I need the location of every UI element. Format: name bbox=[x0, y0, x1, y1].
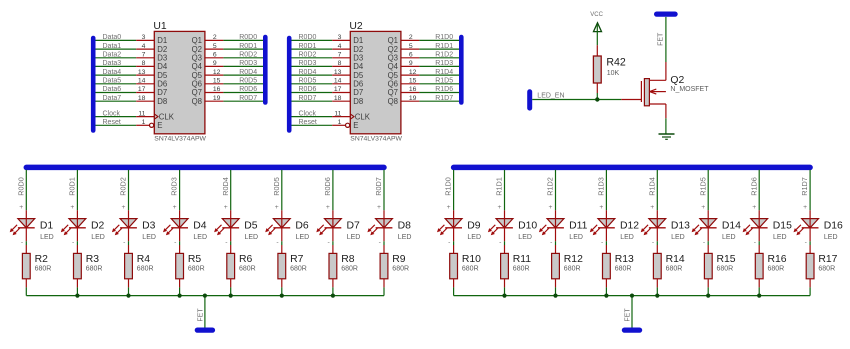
svg-text:3: 3 bbox=[338, 34, 342, 41]
svg-text:11: 11 bbox=[334, 110, 341, 117]
svg-text:D15: D15 bbox=[773, 221, 792, 232]
svg-text:Q5: Q5 bbox=[388, 71, 399, 80]
svg-text:LED: LED bbox=[398, 234, 412, 241]
svg-text:R1D1: R1D1 bbox=[435, 43, 453, 50]
svg-text:+: + bbox=[224, 204, 228, 211]
svg-text:680R: 680R bbox=[290, 266, 307, 273]
svg-text:1: 1 bbox=[338, 119, 342, 126]
svg-text:R0D4: R0D4 bbox=[299, 69, 317, 76]
svg-text:Clock: Clock bbox=[103, 110, 121, 117]
svg-text:R3: R3 bbox=[86, 254, 100, 265]
svg-text:D5: D5 bbox=[244, 221, 258, 232]
svg-text:Q4: Q4 bbox=[388, 62, 399, 71]
svg-text:Q8: Q8 bbox=[192, 97, 202, 106]
svg-text:-: - bbox=[174, 239, 176, 246]
svg-text:+: + bbox=[752, 204, 756, 211]
svg-text:R0D2: R0D2 bbox=[119, 177, 128, 196]
svg-text:U2: U2 bbox=[349, 21, 363, 32]
svg-text:15: 15 bbox=[213, 78, 221, 85]
svg-text:680R: 680R bbox=[513, 266, 530, 273]
svg-text:+: + bbox=[549, 204, 553, 211]
svg-text:R0D2: R0D2 bbox=[299, 52, 317, 59]
svg-text:D6: D6 bbox=[353, 80, 363, 89]
svg-text:D10: D10 bbox=[518, 221, 537, 232]
svg-text:R0D3: R0D3 bbox=[170, 177, 179, 196]
svg-text:-: - bbox=[379, 239, 381, 246]
svg-text:Data1: Data1 bbox=[103, 43, 122, 50]
svg-text:R7: R7 bbox=[290, 254, 304, 265]
svg-text:D1: D1 bbox=[157, 36, 167, 45]
svg-text:+: + bbox=[275, 204, 279, 211]
svg-text:R0D4: R0D4 bbox=[239, 69, 257, 76]
svg-text:9: 9 bbox=[409, 60, 413, 67]
svg-text:14: 14 bbox=[138, 78, 146, 85]
svg-text:5: 5 bbox=[409, 43, 413, 50]
svg-text:CLK: CLK bbox=[355, 112, 371, 121]
svg-text:680R: 680R bbox=[341, 266, 358, 273]
svg-text:E: E bbox=[157, 121, 162, 130]
svg-text:R9: R9 bbox=[392, 254, 406, 265]
svg-text:CLK: CLK bbox=[159, 112, 175, 121]
svg-text:-: - bbox=[123, 239, 125, 246]
svg-text:Q6: Q6 bbox=[388, 80, 398, 89]
svg-text:9: 9 bbox=[213, 60, 217, 67]
svg-text:R4: R4 bbox=[137, 254, 151, 265]
svg-text:680R: 680R bbox=[35, 266, 52, 273]
svg-text:N_MOSFET: N_MOSFET bbox=[670, 86, 709, 93]
svg-text:D8: D8 bbox=[353, 97, 363, 106]
svg-text:18: 18 bbox=[334, 95, 342, 102]
svg-text:R1D4: R1D4 bbox=[435, 69, 453, 76]
svg-text:D6: D6 bbox=[295, 221, 309, 232]
svg-text:R1D7: R1D7 bbox=[800, 177, 809, 196]
svg-text:+: + bbox=[326, 204, 330, 211]
svg-text:16: 16 bbox=[213, 86, 221, 93]
svg-text:Q8: Q8 bbox=[388, 97, 398, 106]
svg-text:680R: 680R bbox=[615, 266, 632, 273]
svg-text:R0D4: R0D4 bbox=[221, 177, 230, 196]
svg-text:R0D3: R0D3 bbox=[239, 60, 257, 67]
svg-text:D6: D6 bbox=[157, 80, 167, 89]
svg-text:R1D4: R1D4 bbox=[647, 177, 656, 196]
svg-text:R10: R10 bbox=[462, 254, 481, 265]
svg-text:R0D7: R0D7 bbox=[239, 95, 257, 102]
svg-text:D3: D3 bbox=[142, 221, 156, 232]
svg-text:12: 12 bbox=[213, 69, 221, 76]
svg-text:R0D5: R0D5 bbox=[299, 78, 317, 85]
svg-text:D16: D16 bbox=[824, 221, 843, 232]
svg-text:E: E bbox=[353, 121, 358, 130]
svg-text:LED: LED bbox=[773, 234, 787, 241]
svg-text:R11: R11 bbox=[513, 254, 532, 265]
svg-text:Q5: Q5 bbox=[192, 71, 203, 80]
svg-text:Q2: Q2 bbox=[388, 45, 398, 54]
svg-text:LED: LED bbox=[569, 234, 583, 241]
svg-text:Data7: Data7 bbox=[103, 95, 122, 102]
svg-text:18: 18 bbox=[138, 95, 146, 102]
svg-text:8: 8 bbox=[142, 60, 146, 67]
svg-text:R0D1: R0D1 bbox=[68, 177, 77, 196]
svg-text:680R: 680R bbox=[818, 266, 835, 273]
svg-text:680R: 680R bbox=[462, 266, 479, 273]
svg-text:R0D0: R0D0 bbox=[299, 34, 317, 41]
svg-text:13: 13 bbox=[334, 69, 342, 76]
svg-text:R0D5: R0D5 bbox=[272, 177, 281, 196]
svg-text:R12: R12 bbox=[564, 254, 583, 265]
svg-text:13: 13 bbox=[138, 69, 146, 76]
svg-text:R0D7: R0D7 bbox=[374, 177, 383, 196]
svg-text:D4: D4 bbox=[193, 221, 207, 232]
svg-text:-: - bbox=[327, 239, 329, 246]
svg-text:8: 8 bbox=[338, 60, 342, 67]
svg-text:D1: D1 bbox=[40, 221, 54, 232]
svg-text:680R: 680R bbox=[137, 266, 154, 273]
svg-text:LED: LED bbox=[193, 234, 207, 241]
svg-text:D5: D5 bbox=[353, 71, 364, 80]
svg-text:FET: FET bbox=[624, 308, 631, 322]
svg-text:+: + bbox=[122, 204, 126, 211]
svg-text:Q1: Q1 bbox=[192, 36, 202, 45]
svg-text:D7: D7 bbox=[353, 88, 363, 97]
svg-text:LED: LED bbox=[671, 234, 685, 241]
svg-text:Data3: Data3 bbox=[103, 60, 122, 67]
svg-text:-: - bbox=[448, 239, 450, 246]
svg-text:14: 14 bbox=[334, 78, 342, 85]
svg-text:LED: LED bbox=[142, 234, 156, 241]
svg-text:-: - bbox=[499, 239, 501, 246]
svg-text:D5: D5 bbox=[157, 71, 168, 80]
svg-text:R1D3: R1D3 bbox=[597, 177, 606, 196]
svg-text:-: - bbox=[805, 239, 807, 246]
svg-text:Q1: Q1 bbox=[388, 36, 398, 45]
svg-text:Reset: Reset bbox=[299, 119, 317, 126]
svg-text:D2: D2 bbox=[157, 45, 167, 54]
svg-text:R1D7: R1D7 bbox=[435, 95, 453, 102]
svg-text:-: - bbox=[703, 239, 705, 246]
svg-text:-: - bbox=[652, 239, 654, 246]
svg-text:R5: R5 bbox=[188, 254, 202, 265]
svg-text:-: - bbox=[21, 239, 23, 246]
svg-text:+: + bbox=[377, 204, 381, 211]
svg-text:17: 17 bbox=[334, 86, 342, 93]
svg-text:6: 6 bbox=[409, 52, 413, 59]
svg-text:+: + bbox=[19, 204, 23, 211]
svg-text:SN74LV374APW: SN74LV374APW bbox=[350, 136, 402, 143]
svg-text:680R: 680R bbox=[86, 266, 103, 273]
svg-text:-: - bbox=[601, 239, 603, 246]
svg-text:-: - bbox=[225, 239, 227, 246]
svg-text:LED: LED bbox=[467, 234, 481, 241]
svg-text:D7: D7 bbox=[157, 88, 167, 97]
svg-text:4: 4 bbox=[142, 43, 146, 50]
svg-text:LED: LED bbox=[518, 234, 532, 241]
svg-text:3: 3 bbox=[142, 34, 146, 41]
svg-text:R1D1: R1D1 bbox=[495, 177, 504, 196]
svg-text:-: - bbox=[754, 239, 756, 246]
svg-text:10K: 10K bbox=[607, 70, 620, 77]
svg-text:+: + bbox=[803, 204, 807, 211]
svg-text:R13: R13 bbox=[615, 254, 634, 265]
svg-text:D4: D4 bbox=[157, 62, 168, 71]
svg-text:R1D6: R1D6 bbox=[435, 86, 453, 93]
svg-text:19: 19 bbox=[213, 95, 221, 102]
svg-text:-: - bbox=[550, 239, 552, 246]
svg-text:Data0: Data0 bbox=[103, 34, 122, 41]
svg-text:2: 2 bbox=[213, 34, 217, 41]
svg-text:R0D1: R0D1 bbox=[239, 43, 257, 50]
svg-text:VCC: VCC bbox=[590, 12, 603, 18]
svg-text:U1: U1 bbox=[153, 21, 167, 32]
svg-text:D12: D12 bbox=[620, 221, 639, 232]
svg-text:R14: R14 bbox=[666, 254, 685, 265]
svg-text:+: + bbox=[650, 204, 654, 211]
svg-text:LED: LED bbox=[296, 234, 310, 241]
svg-text:7: 7 bbox=[338, 52, 342, 59]
svg-text:LED: LED bbox=[620, 234, 634, 241]
svg-text:R1D3: R1D3 bbox=[435, 60, 453, 67]
svg-text:R1D0: R1D0 bbox=[444, 177, 453, 196]
svg-text:D2: D2 bbox=[91, 221, 105, 232]
svg-text:D1: D1 bbox=[353, 36, 363, 45]
svg-text:Clock: Clock bbox=[299, 110, 317, 117]
svg-text:D11: D11 bbox=[569, 221, 588, 232]
svg-text:R17: R17 bbox=[818, 254, 837, 265]
svg-text:R0D2: R0D2 bbox=[239, 52, 257, 59]
svg-text:-: - bbox=[72, 239, 74, 246]
svg-text:-: - bbox=[276, 239, 278, 246]
svg-text:16: 16 bbox=[409, 86, 417, 93]
svg-text:R1D5: R1D5 bbox=[435, 78, 453, 85]
svg-text:Data2: Data2 bbox=[103, 52, 122, 59]
svg-text:+: + bbox=[173, 204, 177, 211]
svg-text:680R: 680R bbox=[717, 266, 734, 273]
svg-text:Reset: Reset bbox=[103, 119, 121, 126]
svg-text:R2: R2 bbox=[35, 254, 49, 265]
svg-text:+: + bbox=[498, 204, 502, 211]
svg-text:R1D2: R1D2 bbox=[435, 52, 453, 59]
svg-text:D13: D13 bbox=[671, 221, 690, 232]
svg-text:FET: FET bbox=[197, 308, 204, 322]
svg-text:LED_EN: LED_EN bbox=[537, 92, 564, 99]
svg-text:680R: 680R bbox=[392, 266, 409, 273]
svg-text:R1D5: R1D5 bbox=[698, 177, 707, 196]
svg-text:Q7: Q7 bbox=[388, 88, 398, 97]
svg-text:19: 19 bbox=[409, 95, 417, 102]
svg-text:17: 17 bbox=[138, 86, 146, 93]
svg-text:11: 11 bbox=[138, 110, 145, 117]
svg-text:680R: 680R bbox=[666, 266, 683, 273]
svg-text:FET: FET bbox=[657, 32, 664, 46]
svg-text:+: + bbox=[599, 204, 603, 211]
svg-text:+: + bbox=[447, 204, 451, 211]
svg-text:LED: LED bbox=[824, 234, 838, 241]
svg-text:Q4: Q4 bbox=[192, 62, 203, 71]
svg-text:Data5: Data5 bbox=[103, 78, 122, 85]
svg-text:LED: LED bbox=[245, 234, 259, 241]
svg-text:R8: R8 bbox=[341, 254, 355, 265]
svg-text:12: 12 bbox=[409, 69, 417, 76]
svg-text:R42: R42 bbox=[606, 56, 626, 68]
svg-text:R0D1: R0D1 bbox=[299, 43, 317, 50]
svg-text:Q2: Q2 bbox=[670, 75, 684, 86]
svg-text:R16: R16 bbox=[768, 254, 787, 265]
svg-text:7: 7 bbox=[142, 52, 146, 59]
svg-text:Data6: Data6 bbox=[103, 86, 122, 93]
svg-text:Data4: Data4 bbox=[103, 69, 122, 76]
svg-text:LED: LED bbox=[722, 234, 736, 241]
svg-text:R0D6: R0D6 bbox=[323, 177, 332, 196]
svg-text:R0D0: R0D0 bbox=[239, 34, 257, 41]
svg-text:D8: D8 bbox=[157, 97, 167, 106]
svg-text:680R: 680R bbox=[564, 266, 581, 273]
svg-text:D4: D4 bbox=[353, 62, 364, 71]
svg-text:D2: D2 bbox=[353, 45, 363, 54]
svg-text:5: 5 bbox=[213, 43, 217, 50]
svg-text:LED: LED bbox=[91, 234, 105, 241]
svg-text:R0D7: R0D7 bbox=[299, 95, 317, 102]
svg-text:+: + bbox=[70, 204, 74, 211]
svg-text:R1D2: R1D2 bbox=[546, 177, 555, 196]
svg-text:680R: 680R bbox=[239, 266, 256, 273]
svg-text:680R: 680R bbox=[188, 266, 205, 273]
svg-text:1: 1 bbox=[142, 119, 146, 126]
svg-text:R1D0: R1D0 bbox=[435, 34, 453, 41]
svg-text:LED: LED bbox=[347, 234, 361, 241]
svg-text:LED: LED bbox=[40, 234, 54, 241]
svg-text:R0D6: R0D6 bbox=[299, 86, 317, 93]
svg-text:Q7: Q7 bbox=[192, 88, 202, 97]
svg-text:D7: D7 bbox=[347, 221, 361, 232]
svg-text:D14: D14 bbox=[722, 221, 741, 232]
svg-text:Q6: Q6 bbox=[192, 80, 202, 89]
svg-text:+: + bbox=[701, 204, 705, 211]
svg-text:R0D0: R0D0 bbox=[16, 177, 25, 196]
svg-text:R1D6: R1D6 bbox=[749, 177, 758, 196]
svg-text:4: 4 bbox=[338, 43, 342, 50]
svg-text:Q2: Q2 bbox=[192, 45, 202, 54]
svg-text:R0D5: R0D5 bbox=[239, 78, 257, 85]
svg-text:680R: 680R bbox=[768, 266, 785, 273]
svg-text:R15: R15 bbox=[717, 254, 736, 265]
svg-text:R0D3: R0D3 bbox=[299, 60, 317, 67]
svg-text:SN74LV374APW: SN74LV374APW bbox=[154, 136, 206, 143]
svg-text:D9: D9 bbox=[467, 221, 481, 232]
svg-text:2: 2 bbox=[409, 34, 413, 41]
svg-text:D8: D8 bbox=[398, 221, 412, 232]
svg-text:R6: R6 bbox=[239, 254, 253, 265]
svg-text:15: 15 bbox=[409, 78, 417, 85]
svg-text:6: 6 bbox=[213, 52, 217, 59]
svg-text:R0D6: R0D6 bbox=[239, 86, 257, 93]
